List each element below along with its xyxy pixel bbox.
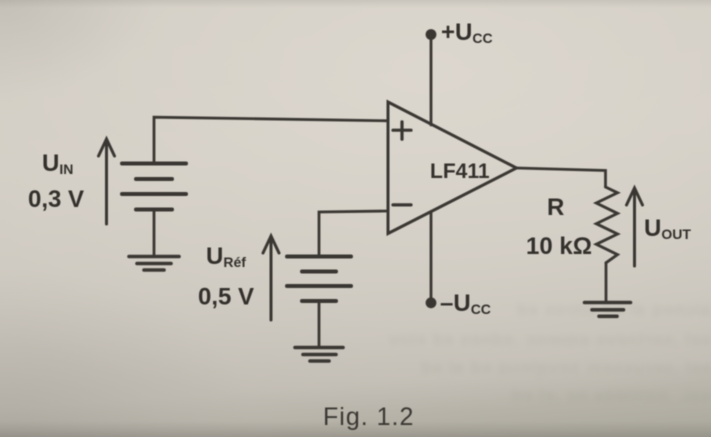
ground (U_Ref) <box>295 348 343 362</box>
wire from U_IN battery + terminal to op-amp non-inverting input <box>154 117 388 163</box>
wire from op-amp output to resistor R <box>517 168 606 187</box>
resistor R 10k zigzag <box>596 187 617 263</box>
wire from resistor R to ground <box>605 263 608 302</box>
wire from +Ucc node to op-amp positive supply pin <box>430 37 433 125</box>
ground (U_IN) <box>129 257 179 271</box>
svg-text:UIN: UIN <box>42 150 73 177</box>
ground (output) <box>585 303 631 317</box>
svg-text:URéf: URéf <box>206 243 246 270</box>
op-amp + input pin symbol <box>393 122 411 139</box>
svg-text:UOUT: UOUT <box>644 215 691 242</box>
svg-text:0,3 V: 0,3 V <box>28 186 84 213</box>
svg-text:10 kΩ: 10 kΩ <box>526 233 592 260</box>
battery U_Ref (voltage source) <box>287 257 351 302</box>
wire from U_IN battery - terminal to ground <box>153 210 156 257</box>
svg-text:R: R <box>547 194 564 221</box>
arrow U_IN (voltage direction) <box>99 139 115 224</box>
bleed-through text from reverse side of page <box>388 300 711 320</box>
svg-text:Fig. 1.2: Fig. 1.2 <box>323 403 414 431</box>
svg-text:0,5 V: 0,5 V <box>198 284 254 311</box>
wire from op-amp inverting input to U_Ref battery <box>319 211 388 256</box>
svg-text:LF411: LF411 <box>430 160 490 183</box>
svg-text:+UCC: +UCC <box>441 19 493 46</box>
battery U_IN (voltage source) <box>122 164 186 210</box>
wire from U_Ref battery - terminal to ground <box>318 301 321 347</box>
arrow U_OUT (voltage direction) <box>627 188 643 266</box>
node -Ucc (junction dot) <box>426 297 437 308</box>
op-amp U1 LF411 triangle <box>388 102 517 234</box>
arrow U_Ref (voltage direction) <box>263 236 279 320</box>
svg-text:–UCC: –UCC <box>440 290 491 317</box>
node +Ucc (junction dot) <box>426 29 437 40</box>
op-amp - input pin symbol <box>393 203 411 206</box>
wire from op-amp negative supply pin to -Ucc node <box>430 212 433 300</box>
